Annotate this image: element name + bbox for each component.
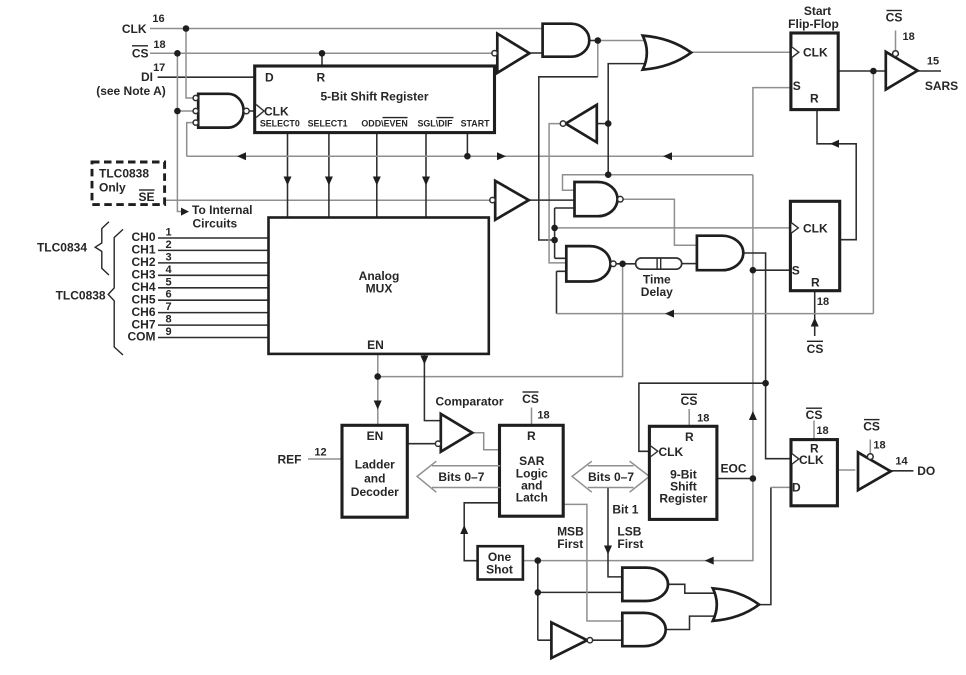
bus arrow Bits 0-7 SAR to 9-bit [572,461,649,492]
svg-text:(see Note A): (see Note A) [96,84,166,98]
direction arrow on EOC net up [749,411,757,420]
wire FF2 output to FF1 R [817,110,856,240]
REF pin label 12 [278,447,327,467]
wire SELECT0 drop [287,133,289,218]
wire CS stub to BUF3 enable [895,31,897,51]
FF2 labels [792,221,828,289]
svg-text:CS: CS [807,342,824,356]
svg-text:MUX: MUX [366,281,393,295]
wire INV3 output to AND5 [593,639,623,641]
and gate AND5 [622,613,665,646]
or gate OR2 [713,588,759,621]
and gate AND3 [697,236,743,271]
5-bit shift register labels [260,71,490,129]
9-bit CS label with pin 18 [681,394,710,424]
direction arrow on FF1 R line [830,140,839,148]
wire Bit 1 LSB first to AND4 [608,488,622,577]
wire channel CH3 [158,274,269,276]
wire ladder output to comparator [407,443,435,445]
direction arrows on START net [237,152,672,160]
svg-text:7: 7 [165,301,171,313]
wire AND5 output to OR2 [666,616,715,629]
svg-text:CLK: CLK [659,445,684,459]
wire FF2 CLK line [555,227,791,229]
wire OR2 output to FF3 D [759,487,771,604]
svg-text:CS: CS [806,408,823,422]
svg-text:CS: CS [522,392,539,406]
DO pin label 14 [895,455,935,478]
and gate AND1 clock gate [543,24,590,57]
wire channel CH7 [158,324,269,326]
svg-text:and: and [364,472,385,486]
svg-text:Circuits: Circuits [193,216,238,230]
9-bit clock wedge [651,446,658,456]
and gate AND4 [622,568,668,601]
TLC0838 only dashed box [92,162,165,205]
wire OR1 output to FF1 CLK [691,51,791,53]
svg-text:Only: Only [99,181,126,195]
wire INV1 output to AND1 [531,52,543,54]
wire FF3 output to BUF4 [837,469,855,471]
inverter INV2 left pointing [560,105,597,143]
wire DI line [158,76,255,78]
svg-text:SARS: SARS [925,79,958,93]
nand gate NAND1 [575,182,624,216]
svg-text:18: 18 [537,410,549,422]
5-bit shift register box [255,66,495,133]
svg-text:D: D [792,480,801,494]
analog MUX box [269,218,489,354]
wire CS to shift register R [321,53,323,66]
svg-text:4: 4 [165,264,172,276]
ladder and decoder labels [351,429,399,499]
svg-text:TLC0834: TLC0834 [37,241,87,255]
wire gated clock net down-left-down [597,41,599,77]
svg-text:6: 6 [165,289,171,301]
svg-text:CLK: CLK [803,221,828,235]
flip-flop FF2 [790,201,839,290]
SAR labels [516,429,548,505]
wire channel CH0 [158,237,269,239]
svg-text:9: 9 [165,326,171,338]
wire INV2 input [597,123,608,125]
5-bit shift register clock wedge [256,105,264,118]
wire SARS output [838,70,941,72]
wire S input of FF2 [753,269,791,271]
wire MUX EN net [377,354,379,425]
wire CS to NAND input 2 and To Internal Circuits [177,53,193,211]
svg-text:Register: Register [659,492,707,506]
svg-text:SE: SE [138,190,154,204]
direction arrow on ladder EN [374,401,382,410]
to internal circuits label [192,203,252,231]
direction arrow on one shot to SAR [460,525,468,534]
wire NAND2 output to EN net [378,264,623,377]
wire OR1 bottom input [608,64,646,175]
nand gate NAND2 [566,246,616,281]
svg-text:15: 15 [927,56,939,68]
wire S-node feedback net [523,175,753,561]
svg-text:CLK: CLK [264,104,289,118]
BUF3 CS enable label [886,11,915,44]
wire channel CH6 [158,312,269,314]
svg-text:12: 12 [314,447,326,459]
wire BUF2 output to NAND1 [529,199,575,201]
direction arrows on select lines [284,177,431,186]
svg-text:CLK: CLK [799,453,824,467]
MSB first label [557,525,584,552]
wire one shot output to SAR [464,503,499,561]
9-bit shift register labels [659,430,708,506]
wire one shot node down to AND4 and INV3 [538,561,623,641]
buffer BUF3 SARS output [886,51,918,90]
svg-text:Ladder: Ladder [355,458,395,472]
svg-text:SELECT0: SELECT0 [260,118,300,128]
svg-text:EOC: EOC [720,462,746,476]
wire MUX output to comparator [424,354,440,421]
svg-text:EN: EN [367,338,384,352]
svg-text:START: START [461,118,490,128]
wire channel COM [158,337,269,339]
wire NAND1 output to AND3 [623,199,697,245]
svg-text:1: 1 [165,227,171,239]
wire EOC [717,478,753,480]
svg-text:S: S [793,79,801,93]
svg-text:S: S [792,264,800,278]
svg-text:18: 18 [697,412,709,424]
svg-text:14: 14 [895,455,908,467]
FF3 CS label with pin 18 [806,408,829,437]
one shot labels [486,550,513,577]
FF3 clock wedge [792,454,799,464]
wire CS stub to BUF4 enable [869,440,871,454]
wire NAND input 3 from START net [187,123,193,157]
svg-text:EN: EN [367,429,384,443]
wire ODD/EVEN drop [376,133,378,218]
wire channel CH2 [158,262,269,264]
pin label CS 18 [132,39,166,61]
wire SARS feedback to NAND2 [557,71,874,314]
svg-text:Latch: Latch [516,491,548,505]
wire CLK line [150,28,543,30]
svg-text:ODD\EVEN: ODD\EVEN [361,118,407,128]
svg-text:5-Bit Shift Register: 5-Bit Shift Register [320,90,428,104]
wire NAND2 output to time delay [616,263,636,265]
wire channel CH4 [158,287,269,289]
device bracket label TLC0838 [56,229,123,355]
svg-text:Bit 1: Bit 1 [612,502,638,516]
wire MSB first from SAR to AND5 [563,504,622,621]
FF2 CS label with pin 18 [807,296,829,356]
one shot box [478,546,523,579]
TLC0838 only labels with SE pin [99,167,155,205]
svg-text:R: R [317,71,326,85]
pin label DI 17 see note A [96,62,166,98]
wire START net to FF1 S [187,88,791,157]
svg-text:Start: Start [804,4,831,18]
FF3 labels [792,441,824,494]
buffer BUF2 on SE [490,181,529,220]
inverter INV3 [551,622,592,658]
svg-text:18: 18 [816,425,828,437]
wire CS stub to 9-bit R [688,409,690,426]
svg-text:First: First [557,537,583,551]
ladder and decoder box [342,425,407,517]
svg-text:TLC0838: TLC0838 [56,288,106,302]
direction arrow to one shot [705,557,714,565]
nand gate U1 three-input [193,94,249,128]
svg-text:3: 3 [165,251,171,263]
direction arrow on MUX output [420,356,428,365]
start flip-flop FF1 [791,33,838,110]
wire START drop [466,133,468,157]
svg-text:5: 5 [165,276,171,288]
wire REF input [308,458,342,460]
svg-text:CS: CS [681,394,698,408]
wire SE to buffer input [165,199,490,201]
svg-text:SGL\DIF: SGL\DIF [417,118,453,128]
svg-text:First: First [617,537,643,551]
analog MUX labels [359,269,400,352]
svg-text:CLK: CLK [803,45,828,59]
svg-text:Decoder: Decoder [351,485,399,499]
direction arrow on SARS feedback [665,310,674,318]
svg-text:To Internal: To Internal [192,203,252,217]
svg-text:18: 18 [153,39,165,51]
inverter INV1 on CS [492,34,530,73]
svg-text:18: 18 [873,440,885,452]
to internal circuits arrow [181,208,189,216]
svg-text:Comparator: Comparator [435,395,503,409]
FF1 clock wedge [792,47,799,57]
svg-text:CS: CS [863,419,880,433]
svg-text:18: 18 [817,296,829,308]
direction arrow on LSB first line [604,546,612,555]
wire time delay to AND3 [682,263,697,265]
wire channel CH5 [158,299,269,301]
svg-text:R: R [811,275,820,289]
svg-text:8: 8 [165,314,171,326]
svg-text:DO: DO [917,464,935,478]
svg-text:TLC0838: TLC0838 [99,167,149,181]
wire SELECT1 drop [328,133,330,218]
svg-text:18: 18 [902,31,914,43]
svg-text:R: R [685,430,694,444]
wire INV2 output to NAND2 [549,124,566,263]
wire NAND output to shift register CLK [249,110,256,112]
wire BUF4 output DO [891,470,914,472]
wire FF2 R from CS [814,291,816,336]
direction arrow on FF2 CS [811,318,819,327]
svg-text:SELECT1: SELECT1 [308,118,348,128]
svg-text:2: 2 [165,239,171,251]
or gate OR1 [643,36,692,70]
start flip-flop labels [788,4,839,105]
svg-text:17: 17 [153,62,165,74]
pin label CLK 16 [122,13,165,36]
wire AND1 output to OR1 [589,40,598,42]
svg-text:DI: DI [141,70,153,84]
wire comparator output to SAR [472,433,499,450]
wire NAND2 input 3 from SARS feedback [557,271,567,313]
output flip-flop FF3 [791,440,837,506]
svg-text:COM: COM [128,330,156,344]
time delay element [636,258,682,299]
wire CS line [150,52,492,54]
SAR logic and latch box [500,425,564,516]
svg-text:D: D [265,71,274,85]
wire AND4 output to OR2 [668,584,715,593]
Bit 1 and LSB first labels [612,502,643,551]
svg-text:CLK: CLK [122,22,147,36]
wire channel CH1 [158,249,269,251]
svg-text:Bits 0–7: Bits 0–7 [588,470,634,484]
wire CS stub to FF3 R [813,421,815,440]
BUF4 CS enable label [863,419,885,451]
svg-text:CS: CS [886,11,903,25]
svg-text:CS: CS [132,47,149,61]
svg-text:Delay: Delay [641,285,673,299]
SARS pin label [925,56,958,93]
svg-text:R: R [527,429,536,443]
svg-text:Flip-Flop: Flip-Flop [788,17,839,31]
wire AND3 output to 9-bit CLK and FF3 CLK [639,253,791,459]
SAR CS label with pin 18 [522,392,549,422]
svg-text:REF: REF [278,453,302,467]
svg-text:Bits 0–7: Bits 0–7 [438,470,484,484]
device bracket label TLC0834 [37,222,109,275]
svg-text:R: R [810,91,819,105]
wire CS stub to SAR R [531,408,533,426]
svg-text:16: 16 [152,13,164,25]
wire gated clock branch to NAND1 NAND2 FF2 CLK [555,208,575,258]
9-bit shift register box [649,426,717,519]
buffer BUF4 DO output [858,452,891,490]
wire SGL/DIF drop [425,133,427,218]
wire CLK to NAND input 1 [186,29,193,99]
bus arrow Bits 0-7 ladder [417,461,500,492]
FF2 clock wedge [791,223,798,233]
channel labels CH0-COM with pin numbers [128,227,173,344]
comparator triangle [435,414,472,452]
svg-text:Shot: Shot [486,563,513,577]
